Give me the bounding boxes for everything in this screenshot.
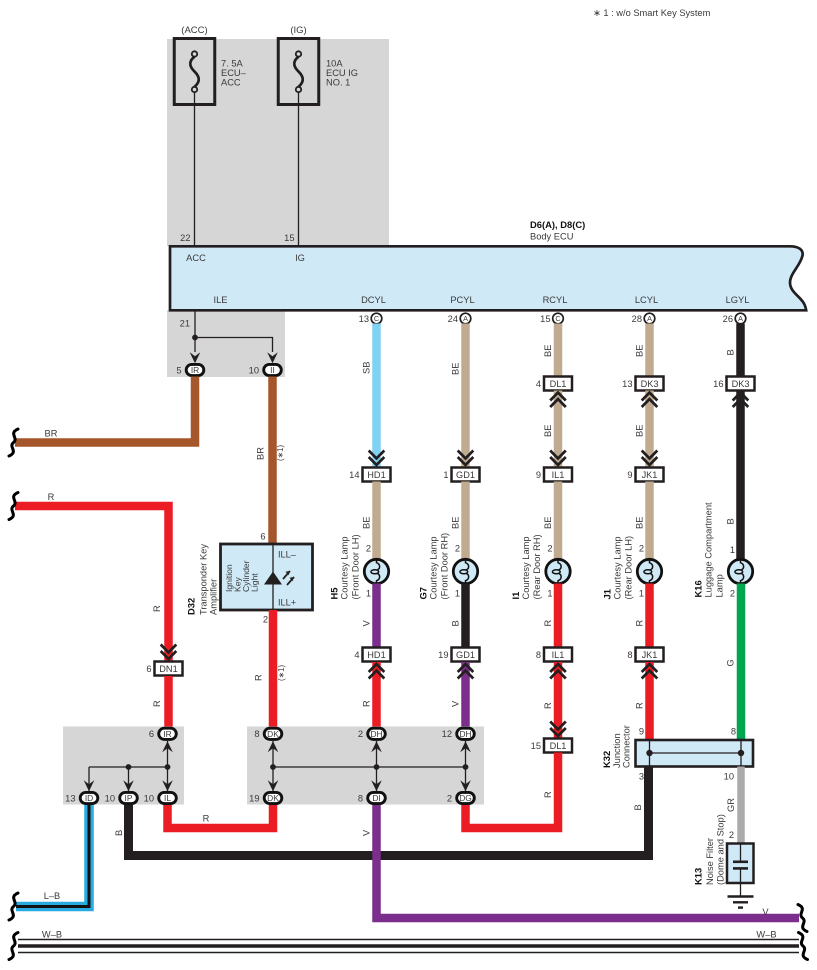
svg-text:BE: BE: [362, 517, 372, 529]
svg-text:16: 16: [713, 379, 723, 389]
svg-text:D32: D32: [186, 598, 197, 615]
wire V DI to right: [362, 805, 800, 918]
broken-wire end L-B: [9, 893, 18, 920]
svg-text:10: 10: [144, 793, 154, 803]
wire R J1 pin 1 to JK1-8: [635, 584, 650, 648]
ECU pin 24 A PCYL: [448, 313, 471, 324]
ECU pin 26 A LGYL: [723, 313, 746, 324]
svg-text:IL1: IL1: [552, 650, 565, 660]
svg-text:10: 10: [724, 772, 734, 782]
svg-text:Lamp: Lamp: [714, 574, 724, 597]
svg-text:BE: BE: [543, 345, 553, 357]
connector joint chevrons below HD1-4: [369, 664, 385, 672]
connector 13 DK3: [622, 377, 663, 391]
left block internal wiring: [84, 741, 173, 792]
svg-text:15: 15: [284, 233, 294, 243]
svg-text:2: 2: [639, 544, 644, 554]
svg-text:∗ 1 : w/o Smart Key System: ∗ 1 : w/o Smart Key System: [593, 8, 711, 18]
wire B LGYL to DK3-16: [726, 324, 741, 377]
connector 10 IL: [144, 792, 177, 803]
svg-text:(Front Door RH): (Front Door RH): [439, 533, 449, 600]
fuse IG 10A ECU IG NO.1: [278, 25, 358, 105]
svg-text:Luggage Compartment: Luggage Compartment: [703, 502, 713, 598]
connector 14 HD1: [349, 468, 390, 482]
wire SB DCYL to HD1: [362, 324, 377, 468]
connector 13 ID: [65, 792, 98, 803]
svg-text:Noise Filter: Noise Filter: [705, 838, 715, 885]
wire R JK1 to K32 pin 9: [635, 662, 650, 740]
connector joint chevrons above HD1-14: [369, 457, 385, 465]
svg-text:B: B: [726, 518, 736, 524]
wire B DK3 to K16 pin 1: [726, 391, 741, 560]
junction block shading (lower right): [247, 727, 484, 805]
wire BE JK1 to J1 pin 2: [635, 482, 650, 560]
svg-text:DCYL: DCYL: [361, 295, 386, 305]
svg-text:BE: BE: [635, 345, 645, 357]
connector 19 GD1: [438, 648, 479, 662]
svg-text:D6(A), D8(C): D6(A), D8(C): [530, 219, 585, 230]
svg-text:BR: BR: [45, 429, 58, 439]
svg-text:GD1: GD1: [456, 650, 475, 660]
svg-text:W–B: W–B: [42, 930, 62, 940]
svg-text:1: 1: [443, 470, 448, 480]
courtesy lamp I1 Rear Door RH: [510, 534, 570, 599]
svg-text:14: 14: [349, 470, 359, 480]
svg-text:21: 21: [180, 319, 190, 329]
svg-text:9: 9: [639, 727, 644, 737]
connector joint chevrons below JK1-8: [642, 664, 658, 672]
wire BE DL1 to IL1-9: [543, 391, 558, 468]
svg-text:IP: IP: [125, 793, 133, 803]
svg-text:B: B: [451, 620, 461, 626]
svg-text:(∗1): (∗1): [276, 445, 285, 461]
svg-text:IL: IL: [164, 793, 171, 803]
svg-text:DG: DG: [459, 793, 472, 803]
broken-wire end W-B left: [9, 933, 18, 960]
wire V GD1 to DH-12: [451, 662, 466, 727]
wire R IL1 to DL1-15: [543, 662, 558, 739]
connector 10 IP: [105, 792, 138, 803]
svg-text:19: 19: [438, 650, 448, 660]
connector 8 DI: [358, 792, 385, 803]
svg-text:ECU IG: ECU IG: [326, 68, 358, 78]
svg-text:8: 8: [731, 727, 736, 737]
wire G K16 pin 2 to K32 pin 8: [726, 584, 742, 741]
connector 8 DK: [254, 728, 281, 739]
svg-text:1: 1: [639, 589, 644, 599]
svg-text:8: 8: [358, 793, 363, 803]
connector joint chevrons above DL1-15: [550, 728, 566, 736]
svg-text:Courtesy Lamp: Courtesy Lamp: [521, 536, 531, 599]
svg-text:9: 9: [536, 470, 541, 480]
svg-text:R: R: [203, 814, 210, 824]
wire B IP to K32 pin 3: [114, 767, 649, 856]
svg-text:26: 26: [723, 314, 733, 324]
svg-text:IR: IR: [163, 729, 171, 739]
svg-text:BE: BE: [543, 517, 553, 529]
svg-text:6: 6: [260, 532, 265, 542]
svg-text:IR: IR: [191, 365, 199, 375]
svg-text:R: R: [635, 702, 645, 709]
svg-text:BE: BE: [635, 425, 645, 437]
svg-text:V: V: [762, 907, 769, 917]
svg-text:22: 22: [180, 233, 190, 243]
svg-text:Connector: Connector: [622, 725, 632, 768]
svg-text:3: 3: [639, 772, 644, 782]
wire B G7 pin 1 to GD1-19: [451, 584, 466, 648]
svg-text:DI: DI: [372, 793, 380, 803]
connector 6 IR: [149, 728, 176, 739]
svg-text:R: R: [543, 620, 553, 627]
wire BE IL1 to I1 pin 2: [543, 482, 558, 560]
connector joint chevrons below GD1-19: [458, 664, 474, 672]
connector joint chevrons above JK1-9: [642, 457, 658, 465]
svg-text:15: 15: [540, 314, 550, 324]
svg-text:G7: G7: [418, 587, 429, 600]
broken-wire end R: [9, 493, 18, 520]
connector 8 JK1: [627, 648, 663, 662]
svg-text:2: 2: [447, 793, 452, 803]
svg-text:ACC: ACC: [186, 253, 206, 263]
svg-text:15: 15: [531, 741, 541, 751]
svg-text:1: 1: [730, 545, 735, 555]
wire R from left to DN1: [15, 492, 169, 662]
svg-text:V: V: [451, 700, 461, 707]
svg-text:K13: K13: [693, 868, 704, 885]
svg-text:Light: Light: [250, 573, 260, 592]
connector 6 DN1: [146, 662, 182, 676]
svg-text:BE: BE: [451, 517, 461, 529]
svg-text:6: 6: [146, 664, 151, 674]
svg-text:ECU–: ECU–: [221, 68, 247, 78]
svg-text:RCYL: RCYL: [543, 295, 568, 305]
connector 4 DL1: [536, 377, 572, 391]
broken-wire end V: [798, 905, 807, 932]
svg-text:DH: DH: [459, 729, 471, 739]
wire BE RCYL to DL1-4: [543, 324, 558, 377]
body ECU D6(A) D8(C): [170, 219, 806, 310]
svg-text:B: B: [726, 349, 736, 355]
svg-text:4: 4: [536, 379, 541, 389]
svg-text:R: R: [152, 700, 162, 707]
svg-text:IG: IG: [295, 253, 305, 263]
svg-text:JK1: JK1: [642, 470, 658, 480]
ECU pin 15 C RCYL: [540, 313, 563, 324]
wire BE PCYL to GD1: [451, 324, 466, 468]
broken-wire end BR: [9, 429, 18, 456]
connector 12 DH: [442, 728, 475, 739]
courtesy lamp J1 Rear Door LH: [602, 536, 662, 600]
svg-text:IL1: IL1: [552, 470, 565, 480]
svg-text:2: 2: [263, 615, 268, 625]
svg-text:R: R: [362, 700, 372, 707]
ECU pin 13 C DCYL: [359, 313, 382, 324]
wire L-B ID to left: [16, 805, 89, 907]
courtesy lamp H5 Front Door LH: [329, 534, 389, 599]
svg-text:A: A: [738, 314, 743, 323]
luggage compartment lamp K16: [693, 502, 753, 599]
wire BE LCYL to DK3-13: [635, 324, 650, 377]
svg-text:10: 10: [105, 793, 115, 803]
connector joint chevrons below DK3-13: [642, 393, 658, 401]
ground: [728, 897, 754, 908]
svg-text:B: B: [633, 804, 643, 810]
svg-text:L–B: L–B: [44, 891, 61, 901]
connector 9 JK1: [627, 468, 663, 482]
svg-text:Courtesy Lamp: Courtesy Lamp: [428, 536, 438, 599]
svg-text:G: G: [726, 659, 736, 666]
svg-text:C: C: [555, 314, 560, 323]
broken-wire end W-B right: [799, 933, 808, 960]
svg-text:ILE: ILE: [214, 295, 228, 305]
svg-text:HD1: HD1: [367, 650, 385, 660]
svg-text:12: 12: [442, 729, 452, 739]
svg-text:9: 9: [627, 470, 632, 480]
svg-text:R: R: [254, 674, 264, 681]
svg-text:28: 28: [632, 314, 642, 324]
svg-text:Junction: Junction: [612, 733, 622, 768]
svg-text:10: 10: [249, 365, 259, 375]
wire BR from IR to left: [15, 377, 195, 443]
svg-text:(Front Door LH): (Front Door LH): [350, 534, 360, 599]
svg-text:NO. 1: NO. 1: [326, 78, 350, 88]
svg-text:R: R: [543, 702, 553, 709]
connector 2 DH: [358, 728, 385, 739]
wire R D32 pin 2 to DK: [254, 610, 287, 727]
svg-text:R: R: [48, 492, 55, 502]
connector 4 HD1: [354, 648, 390, 662]
svg-text:A: A: [463, 314, 468, 323]
svg-text:B: B: [114, 830, 124, 836]
svg-text:GR: GR: [726, 798, 736, 812]
fuse ACC 7.5A ECU-ACC: [174, 25, 246, 105]
svg-text:BE: BE: [635, 517, 645, 529]
svg-text:ACC: ACC: [221, 78, 241, 88]
courtesy lamp G7 Front Door RH: [418, 533, 478, 600]
svg-text:HD1: HD1: [367, 470, 385, 480]
svg-text:R: R: [543, 791, 553, 798]
svg-text:DK: DK: [267, 729, 279, 739]
connector 16 DK3: [713, 377, 754, 391]
svg-text:R: R: [152, 605, 162, 612]
svg-text:10A: 10A: [326, 59, 343, 69]
connector 8 IL1: [536, 648, 572, 662]
right block internal wiring: [268, 741, 471, 792]
svg-text:(ACC): (ACC): [181, 25, 207, 36]
svg-text:LGYL: LGYL: [726, 295, 750, 305]
svg-text:H5: H5: [329, 588, 340, 600]
connector 9 IL1: [536, 468, 572, 482]
svg-text:(Dome and Stop): (Dome and Stop): [716, 814, 726, 885]
amplifier D32 ignition key cylinder light: [186, 532, 313, 625]
wire V H5 pin 1 to HD1-4: [362, 584, 377, 648]
connector 2 DG: [447, 792, 474, 803]
svg-text:7. 5A: 7. 5A: [221, 59, 244, 69]
svg-text:Courtesy Lamp: Courtesy Lamp: [339, 536, 349, 599]
svg-text:2: 2: [730, 589, 735, 599]
svg-text:JK1: JK1: [642, 650, 658, 660]
svg-text:19: 19: [249, 793, 259, 803]
junction block shading (below ECU, IR/II): [167, 310, 285, 377]
wire BE DK3 to JK1-9: [635, 391, 650, 468]
svg-text:Amplifier: Amplifier: [209, 579, 219, 615]
svg-text:II: II: [270, 365, 275, 375]
svg-text:W–B: W–B: [756, 930, 776, 940]
svg-text:13: 13: [359, 314, 369, 324]
svg-text:Courtesy Lamp: Courtesy Lamp: [612, 536, 622, 599]
svg-text:Transponder Key: Transponder Key: [199, 544, 209, 615]
svg-text:8: 8: [536, 650, 541, 660]
connector 10 II: [249, 364, 282, 375]
svg-text:2: 2: [455, 544, 460, 554]
svg-text:(Rear Door RH): (Rear Door RH): [532, 534, 542, 599]
svg-text:PCYL: PCYL: [450, 295, 474, 305]
wire R DL1-15 to DG: [466, 753, 559, 829]
svg-text:DL1: DL1: [550, 379, 567, 389]
svg-text:5: 5: [176, 365, 181, 375]
svg-text:8: 8: [254, 729, 259, 739]
connector joint chevrons below DK3-16: [733, 393, 749, 401]
ECU pin 28 A LCYL: [632, 313, 655, 324]
connector 1 GD1: [443, 468, 479, 482]
wire BR II to D32 pin 6: [256, 377, 286, 545]
svg-text:(Rear Door LH): (Rear Door LH): [623, 536, 633, 600]
svg-text:13: 13: [65, 793, 75, 803]
svg-text:ILL–: ILL–: [278, 550, 297, 560]
svg-text:C: C: [374, 314, 379, 323]
svg-text:(∗1): (∗1): [277, 665, 286, 681]
svg-text:BE: BE: [543, 425, 553, 437]
svg-text:ID: ID: [85, 793, 93, 803]
svg-text:6: 6: [149, 729, 154, 739]
connector joint chevrons below IL1-8: [550, 664, 566, 672]
svg-text:2: 2: [547, 544, 552, 554]
svg-text:V: V: [362, 829, 372, 836]
svg-text:DH: DH: [370, 729, 382, 739]
svg-text:DK: DK: [267, 793, 279, 803]
svg-text:R: R: [635, 620, 645, 627]
wire R I1 pin 1 to IL1-8: [543, 584, 558, 648]
svg-text:2: 2: [729, 830, 734, 840]
svg-text:Body ECU: Body ECU: [530, 232, 573, 242]
svg-text:DK3: DK3: [641, 379, 659, 389]
svg-text:24: 24: [448, 314, 458, 324]
svg-text:DL1: DL1: [550, 741, 567, 751]
wire fuse ACC to ECU pin 22: [180, 93, 194, 248]
svg-text:(IG): (IG): [290, 25, 306, 36]
svg-text:BE: BE: [451, 363, 461, 375]
svg-text:1: 1: [455, 589, 460, 599]
wire R HD1 to DH: [362, 662, 377, 727]
wire ILE split to IR and II: [190, 310, 278, 363]
svg-text:1: 1: [547, 589, 552, 599]
junction block shading (lower left): [63, 727, 184, 805]
wire R DN1 to IR: [152, 676, 169, 727]
svg-text:DN1: DN1: [159, 664, 177, 674]
svg-text:13: 13: [622, 379, 632, 389]
connector 15 DL1: [531, 739, 572, 753]
wire W-B bus: [18, 930, 799, 953]
fuse block shading (upper): [167, 39, 389, 246]
connector joint chevrons below DL1-4: [550, 393, 566, 401]
svg-text:DK3: DK3: [732, 379, 750, 389]
svg-text:K16: K16: [693, 580, 704, 597]
noise filter K13 Dome and Stop: [693, 814, 754, 896]
svg-text:LCYL: LCYL: [635, 295, 658, 305]
wire GR K32 pin 10 to K13: [726, 767, 741, 844]
connector 19 DK: [249, 792, 282, 803]
connector joint chevrons above GD1-1: [458, 457, 474, 465]
wire fuse IG to ECU pin 15: [284, 93, 298, 248]
svg-text:SB: SB: [362, 362, 372, 374]
connector joint chevrons above IL1-9: [550, 457, 566, 465]
wire BE GD1 to G7 pin 2: [451, 482, 466, 560]
svg-text:V: V: [362, 620, 372, 627]
svg-text:K32: K32: [601, 751, 612, 768]
svg-text:BR: BR: [256, 447, 266, 460]
svg-text:1: 1: [366, 589, 371, 599]
junction connector K32: [601, 725, 753, 781]
svg-text:ILL+: ILL+: [278, 598, 296, 608]
svg-text:2: 2: [366, 544, 371, 554]
wire BE HD1 to H5 pin 2: [362, 482, 377, 560]
connector joint chevrons above DN1: [161, 651, 177, 659]
svg-text:GD1: GD1: [456, 470, 475, 480]
svg-text:A: A: [647, 314, 652, 323]
connector 5 IR: [176, 364, 203, 375]
svg-text:I1: I1: [510, 592, 521, 600]
svg-text:4: 4: [354, 650, 359, 660]
svg-text:2: 2: [358, 729, 363, 739]
svg-text:J1: J1: [602, 589, 613, 599]
wire R IL to DK-19: [168, 805, 274, 828]
svg-text:8: 8: [627, 650, 632, 660]
